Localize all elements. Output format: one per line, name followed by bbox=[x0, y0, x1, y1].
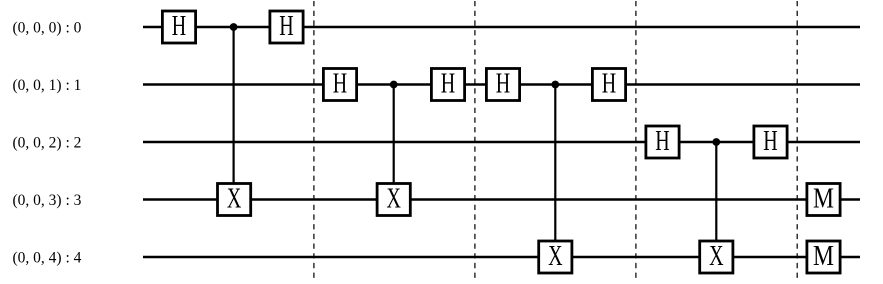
gate H2 q0 bbox=[270, 11, 303, 43]
svg-text:H: H bbox=[655, 126, 670, 157]
moment separator 2 bbox=[474, 1, 476, 278]
gate H3 q1 bbox=[323, 68, 356, 100]
svg-text:(0, 0, 3) : 3: (0, 0, 3) : 3 bbox=[13, 192, 82, 209]
connector control q1 to X q3 bbox=[393, 85, 395, 191]
svg-text:M: M bbox=[813, 182, 834, 214]
connector control q1 to X q4 bbox=[554, 85, 556, 248]
control dot q2 bbox=[712, 138, 720, 146]
gate H5 q1 bbox=[486, 68, 519, 100]
moment separator 3 bbox=[635, 1, 637, 278]
gate H4 q1 bbox=[431, 68, 464, 100]
svg-text:X: X bbox=[548, 241, 563, 272]
moment separator 1 bbox=[313, 1, 315, 278]
svg-text:H: H bbox=[441, 68, 456, 99]
wire qubit 0 bbox=[143, 26, 860, 29]
svg-text:X: X bbox=[227, 183, 242, 214]
gate M2 measurement q4 bbox=[807, 240, 840, 273]
gate X2 q3 bbox=[377, 183, 410, 215]
svg-text:(0, 0, 0) : 0: (0, 0, 0) : 0 bbox=[13, 19, 82, 36]
connector control q0 to X q3 bbox=[233, 27, 235, 190]
svg-text:M: M bbox=[813, 240, 834, 272]
control dot q1 (second CNOT) bbox=[551, 81, 559, 89]
svg-text:(0, 0, 1) : 1: (0, 0, 1) : 1 bbox=[13, 77, 82, 94]
svg-text:(0, 0, 2) : 2: (0, 0, 2) : 2 bbox=[13, 134, 82, 151]
wire qubit 1 bbox=[143, 83, 860, 86]
gate H8 q2 bbox=[754, 126, 787, 158]
svg-text:H: H bbox=[333, 68, 348, 99]
control dot q1 (first CNOT) bbox=[390, 81, 398, 89]
svg-text:H: H bbox=[172, 11, 187, 42]
gate H7 q2 bbox=[646, 126, 679, 158]
wire qubit 3 bbox=[143, 198, 860, 201]
gate H1 q0 bbox=[162, 11, 195, 43]
svg-text:X: X bbox=[386, 183, 401, 214]
moment separator 4 bbox=[796, 1, 798, 278]
connector control q2 to X q4 bbox=[715, 142, 717, 247]
wire qubit 2 bbox=[143, 141, 860, 144]
gate X1 q3 bbox=[218, 183, 251, 215]
svg-text:H: H bbox=[496, 68, 511, 99]
svg-text:H: H bbox=[602, 68, 617, 99]
gate X3 q4 bbox=[539, 241, 572, 273]
gate M1 measurement q3 bbox=[807, 182, 840, 215]
wire qubit 4 bbox=[143, 256, 860, 259]
control dot q0 bbox=[230, 23, 238, 31]
gate H6 q1 bbox=[592, 68, 625, 100]
svg-text:X: X bbox=[709, 241, 724, 272]
svg-text:H: H bbox=[763, 126, 778, 157]
gate X4 q4 bbox=[700, 241, 733, 273]
svg-text:H: H bbox=[279, 11, 294, 42]
svg-text:(0, 0, 4) : 4: (0, 0, 4) : 4 bbox=[13, 249, 82, 266]
